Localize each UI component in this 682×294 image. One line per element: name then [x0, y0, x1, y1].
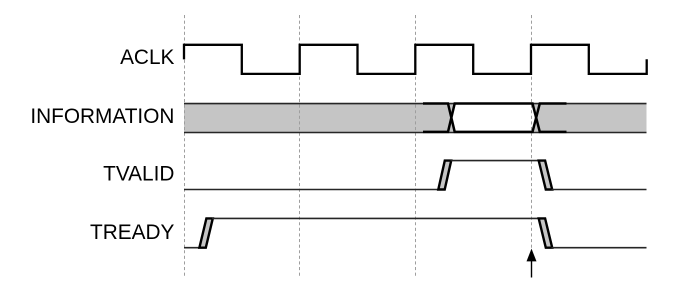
wire TREADY high segment: [212, 217, 540, 219]
INFORMATION valid-data white hexagon (underlay): [451, 104, 536, 132]
INFORMATION bus thin top border: [184, 103, 647, 105]
TVALID rising transition parallelogram: [438, 161, 451, 190]
wire ACLK clock waveform: [184, 45, 647, 74]
wire TREADY low segment left: [184, 247, 201, 249]
gridline t3: [415, 15, 417, 277]
INFORMATION bus thin bottom border: [184, 132, 647, 134]
TREADY falling transition parallelogram: [539, 218, 553, 247]
INFORMATION valid-data thick envelope upper/cross line: [423, 104, 567, 132]
svg-text:ACLK: ACLK: [120, 46, 174, 69]
gridline t4: [531, 15, 533, 277]
TREADY rising transition parallelogram: [199, 218, 212, 247]
annotation arrow shaft: [531, 260, 533, 278]
TVALID falling transition parallelogram: [539, 161, 553, 190]
svg-text:INFORMATION: INFORMATION: [30, 105, 174, 128]
gridline t1: [184, 15, 186, 277]
wire TREADY low segment right: [552, 247, 647, 249]
annotation arrow head: [527, 249, 537, 262]
INFORMATION bus gray band (underlay): [184, 103, 647, 133]
svg-text:TVALID: TVALID: [103, 162, 174, 185]
INFORMATION valid-data thick envelope lower/cross line: [423, 104, 567, 132]
gridline t2: [299, 15, 301, 277]
wire TVALID low segment right: [552, 189, 647, 191]
wire TVALID high segment: [451, 160, 540, 162]
wire TVALID low segment left: [184, 189, 440, 191]
svg-text:TREADY: TREADY: [90, 221, 174, 244]
